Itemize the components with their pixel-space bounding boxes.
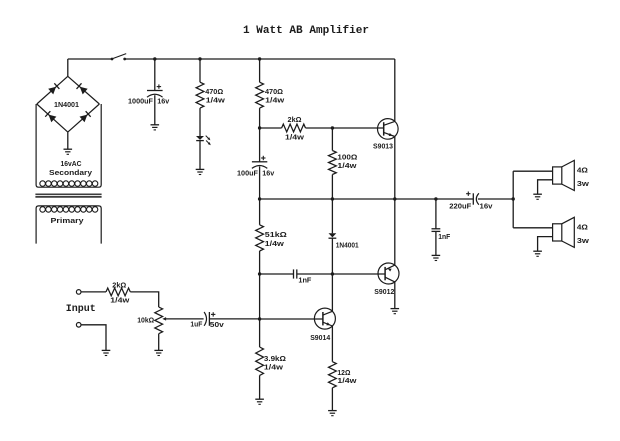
node output at emitter column	[393, 197, 396, 200]
svg-text:16vAC: 16vAC	[61, 159, 83, 168]
svg-text:1/4w: 1/4w	[265, 239, 284, 248]
svg-text:1/4w: 1/4w	[264, 363, 283, 372]
svg-text:1 Watt AB Amplifier: 1 Watt AB Amplifier	[243, 25, 369, 37]
label 50v (C3)	[210, 320, 225, 329]
LED D5	[196, 136, 211, 146]
label 1/4w (R6)	[264, 363, 283, 372]
svg-text:S9013: S9013	[373, 141, 393, 150]
svg-text:470Ω: 470Ω	[265, 87, 283, 96]
svg-text:4Ω: 4Ω	[577, 165, 588, 174]
label 3w (SP2)	[577, 236, 589, 245]
wire bridge top to rail	[67, 59, 69, 76]
label 2k (R3)	[288, 115, 302, 124]
capacitor C2 100uF 16v	[252, 156, 267, 169]
node output at diode column	[331, 197, 334, 200]
wire 100uF to output rail	[259, 166, 261, 199]
wire S9014 emitter to 12ohm	[331, 326, 333, 362]
label Primary	[51, 216, 85, 225]
wire speaker 2 return	[538, 237, 553, 251]
label 470 (R2)	[265, 87, 283, 96]
svg-text:1/4w: 1/4w	[110, 296, 129, 305]
label 1000uF	[128, 97, 154, 106]
input terminal top	[76, 290, 81, 295]
transformer secondary winding	[40, 181, 98, 187]
label 10k (R9)	[137, 316, 154, 325]
label S9013	[373, 141, 393, 150]
diode bridge arm lower-left (B to L)	[45, 111, 56, 122]
wire 1uF to base row	[209, 318, 259, 320]
wire input top to 2k	[81, 291, 106, 293]
ground (bridge)	[64, 149, 73, 154]
wire diode D6 bottom	[331, 238, 333, 274]
svg-text:50v: 50v	[210, 320, 225, 329]
node output at 1nF	[434, 197, 437, 200]
diode D6 1N4001	[329, 233, 337, 238]
diode bridge arm upper-left (L to T)	[48, 83, 59, 94]
resistor R4 100 ohm	[329, 151, 337, 175]
bridge rectifier D1 1N4001 diamond	[37, 76, 100, 132]
svg-text:1N4001: 1N4001	[54, 100, 79, 109]
capacitor C3 1uF 50v	[204, 312, 215, 326]
ground (1nF)	[432, 255, 441, 260]
node V+ at LED branch	[198, 57, 201, 60]
label 1/4w (R8)	[110, 296, 129, 305]
wire 3.9k to ground	[259, 375, 261, 399]
svg-text:1/4w: 1/4w	[337, 376, 356, 385]
wire speaker bus vertical	[512, 171, 514, 228]
wire S9013 emitter to output rail	[394, 137, 396, 200]
ground (3.9k)	[255, 399, 264, 404]
capacitor C6 1nF	[432, 229, 441, 232]
node output at R2 column	[258, 197, 261, 200]
wire to speaker 1	[513, 170, 552, 172]
capacitor C5 220uF 16v	[466, 192, 479, 205]
wire diode D6 top	[331, 199, 333, 233]
pot wiper arrow	[162, 317, 166, 321]
resistor R1 470 ohm	[196, 82, 204, 108]
svg-text:2kΩ: 2kΩ	[112, 280, 126, 289]
wire V+ rail (switch to S9013 collector corner)	[125, 58, 395, 60]
resistor R7 12 ohm	[329, 362, 337, 388]
transistor Q1 S9013	[378, 119, 399, 140]
svg-text:100Ω: 100Ω	[337, 152, 357, 161]
svg-text:1/4w: 1/4w	[206, 96, 225, 105]
svg-text:16v: 16v	[262, 169, 275, 178]
svg-text:16v: 16v	[157, 97, 170, 106]
ground (input jack)	[102, 350, 111, 355]
svg-text:10kΩ: 10kΩ	[137, 316, 154, 325]
label 12 (R7)	[337, 368, 350, 377]
svg-text:100uF: 100uF	[237, 169, 259, 178]
label 220uF	[449, 202, 472, 211]
node base row	[258, 317, 261, 320]
svg-text:1N4001: 1N4001	[336, 240, 359, 249]
transformer core	[35, 194, 101, 197]
label 16v (C2)	[262, 169, 275, 178]
wire S9014 collector up	[331, 274, 333, 311]
wire 1000uF bottom	[154, 95, 156, 124]
label 100 (R4)	[337, 152, 357, 161]
resistor R3 2k	[282, 124, 306, 132]
node mid row diode junction	[331, 272, 334, 275]
transformer primary winding	[40, 207, 98, 213]
label Secondary	[49, 168, 93, 177]
svg-text:1000uF: 1000uF	[128, 97, 154, 106]
svg-text:470Ω: 470Ω	[205, 87, 223, 96]
ground (LED)	[196, 169, 205, 174]
transistor Q3 S9014	[314, 308, 335, 329]
ground (speaker 2)	[533, 251, 542, 256]
wire 1nF-a bottom	[435, 231, 437, 255]
wire 51k top	[259, 199, 261, 225]
label 2k (R8)	[112, 280, 126, 289]
speaker SP2 4ohm 3w	[553, 217, 575, 247]
potentiometer R9 10k	[155, 307, 163, 334]
wire R2 to 100uF	[259, 108, 261, 162]
wire mid row to 1nF	[260, 273, 294, 275]
label 16v (C5)	[480, 202, 494, 211]
svg-text:1nF: 1nF	[298, 275, 312, 284]
label 470 (R1)	[205, 87, 223, 96]
wire base row to 3.9k	[259, 319, 261, 347]
node speaker bus	[512, 197, 515, 200]
wire 220uF to speaker bus	[478, 198, 513, 200]
wire 470ohm-2 top	[259, 59, 261, 82]
node mid row left	[258, 272, 261, 275]
ground (speaker 1)	[533, 194, 542, 199]
svg-text:220uF: 220uF	[449, 202, 472, 211]
wire 51k bottom	[259, 251, 261, 274]
node V+ at 470ohm-2	[258, 57, 261, 60]
wire speaker 1 return	[538, 180, 553, 194]
svg-text:1/4w: 1/4w	[285, 132, 304, 141]
svg-text:16v: 16v	[480, 202, 494, 211]
transformer secondary box	[36, 104, 101, 187]
wire 1000uF top	[154, 59, 156, 91]
label 4ohm (SP2)	[577, 222, 588, 231]
speaker SP1 4ohm 3w	[553, 160, 575, 190]
wire node to 2k	[260, 127, 282, 129]
label 16vAC	[61, 159, 83, 168]
wire mid row to base row	[259, 274, 261, 319]
svg-text:Primary: Primary	[51, 216, 85, 225]
label 1nF (C4)	[298, 275, 312, 284]
wire S9012 emitter up	[394, 199, 396, 265]
label 3.9k (R6)	[264, 354, 286, 363]
wire 1nF to S9012 base	[297, 273, 385, 275]
ground (1000uF)	[151, 125, 160, 130]
wire base row to S9014	[260, 318, 323, 320]
wire wiper to 1uF	[165, 318, 204, 320]
svg-text:Secondary: Secondary	[49, 168, 93, 177]
label 1/4w (R5)	[265, 239, 284, 248]
label 51k (R5)	[265, 230, 287, 239]
wire V+ rail left segment (bridge to switch)	[68, 58, 112, 60]
label S9012	[374, 287, 394, 296]
capacitor C4 1nF	[294, 269, 297, 278]
node R2/2k junction	[258, 126, 261, 129]
diode bridge arm lower-right (B to R)	[80, 111, 91, 122]
switch S1	[111, 54, 127, 61]
wire 2k to S9013 base	[306, 127, 384, 129]
transistor Q2 S9012	[378, 263, 399, 284]
wire 470ohm-1 top	[199, 59, 201, 82]
label 16v (C1)	[157, 97, 170, 106]
wire 100ohm top	[331, 128, 333, 151]
label 1/4w (R4)	[337, 161, 356, 170]
label 100uF	[237, 169, 259, 178]
wire S9012 collector to ground	[394, 282, 396, 309]
svg-text:2kΩ: 2kΩ	[288, 115, 302, 124]
wire output rail	[260, 198, 474, 200]
label 3w (SP1)	[577, 179, 589, 188]
node V+ at 1000uF	[153, 57, 156, 60]
ground (pot)	[154, 350, 163, 355]
label Input	[66, 304, 96, 315]
resistor R8 2k (input)	[106, 288, 130, 296]
ground (S9012)	[391, 309, 400, 314]
wire S9013 collector drop	[394, 59, 396, 121]
label 1N4001 (D6)	[336, 240, 359, 249]
svg-text:S9012: S9012	[374, 287, 394, 296]
svg-text:1/4w: 1/4w	[337, 161, 356, 170]
svg-text:3w: 3w	[577, 179, 589, 188]
wire LED to ground	[199, 141, 201, 170]
wire pot bottom to ground	[158, 334, 160, 351]
svg-text:1/4w: 1/4w	[265, 96, 284, 105]
title: 1 Watt AB Amplifier	[243, 25, 369, 37]
capacitor C1 1000uF 16v	[147, 84, 163, 97]
diode bridge arm upper-right (R to T)	[77, 83, 88, 94]
svg-text:51kΩ: 51kΩ	[265, 230, 287, 239]
node 2k/100ohm junction	[331, 126, 334, 129]
transformer primary box	[36, 206, 101, 244]
label 1/4w (R1)	[206, 96, 225, 105]
svg-text:3w: 3w	[577, 236, 589, 245]
wire to speaker 2	[513, 227, 552, 229]
ground (12ohm)	[328, 411, 337, 416]
svg-text:4Ω: 4Ω	[577, 222, 588, 231]
svg-text:S9014: S9014	[310, 333, 331, 342]
wire 2k to pot	[130, 292, 158, 307]
wire 12ohm to ground	[331, 388, 333, 411]
label 1nF (C6)	[438, 232, 450, 241]
resistor R2 470 ohm	[256, 82, 264, 108]
wire 1nF-a top	[435, 199, 437, 229]
label 4ohm (SP1)	[577, 165, 588, 174]
wire R1 to LED	[199, 108, 201, 136]
label 1/4w (R2)	[265, 96, 284, 105]
svg-text:Input: Input	[66, 304, 96, 315]
wire input bottom	[81, 325, 106, 350]
svg-text:1uF: 1uF	[190, 319, 202, 328]
resistor R6 3.9k	[256, 347, 264, 375]
wire 100ohm bottom	[331, 175, 333, 200]
label 1N4001 (bridge)	[54, 100, 79, 109]
resistor R5 51k	[256, 225, 264, 251]
label 1uF (C3)	[190, 319, 202, 328]
svg-text:3.9kΩ: 3.9kΩ	[264, 354, 286, 363]
label S9014	[310, 333, 331, 342]
wire bridge bottom to ground	[67, 132, 69, 149]
svg-text:1nF: 1nF	[438, 232, 450, 241]
label 1/4w (R7)	[337, 376, 356, 385]
input terminal bottom	[76, 323, 81, 328]
label 1/4w (R3)	[285, 132, 304, 141]
